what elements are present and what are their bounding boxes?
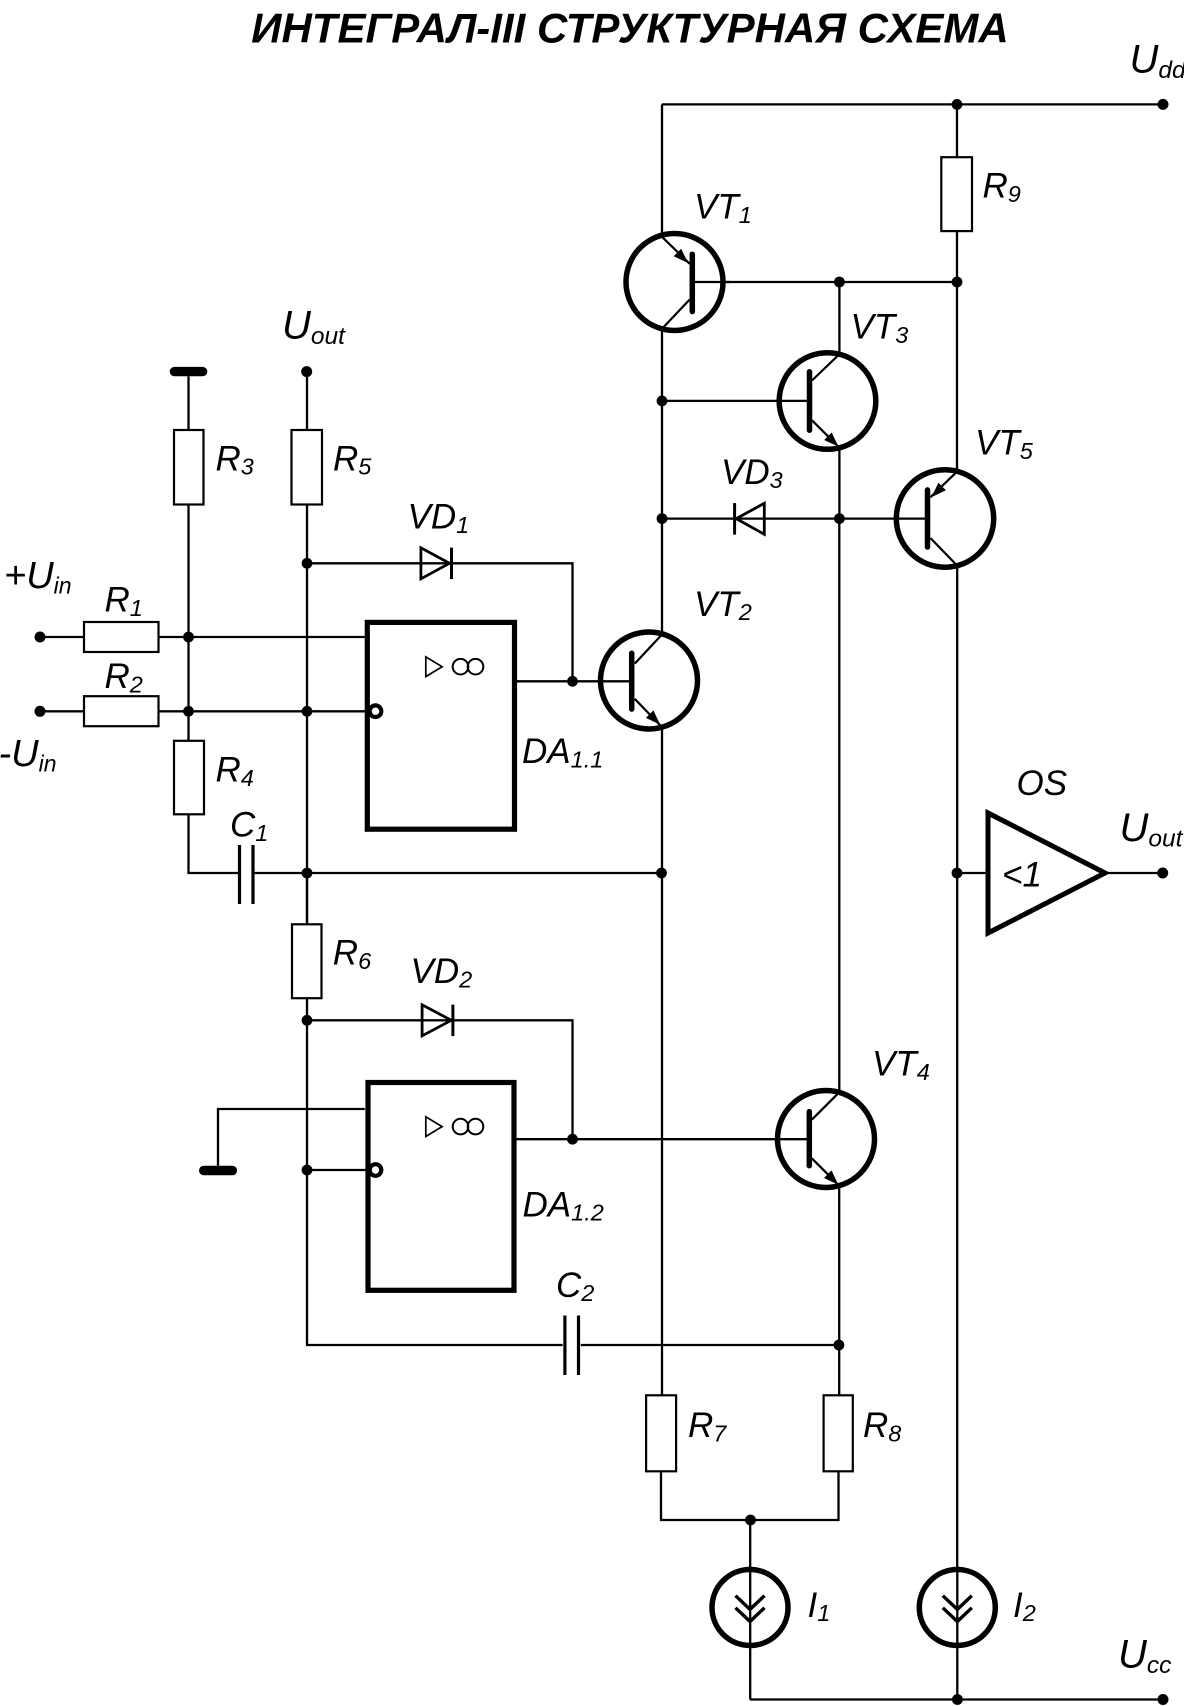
wire VT4 emitter down to R8: [838, 1186, 840, 1396]
buffer OS: [988, 813, 1105, 933]
current source I1: [712, 1520, 788, 1700]
diode VD2: [422, 1005, 453, 1037]
wire bottom Ucc rail: [750, 1698, 1163, 1700]
svg-text:Udd: Udd: [1130, 38, 1184, 85]
label DA1.1: [522, 732, 603, 772]
wire VD3 line: [662, 517, 925, 519]
label VT4: [872, 1045, 930, 1085]
svg-text:I2: I2: [1013, 1586, 1036, 1626]
wire C1 bus to x662: [255, 872, 662, 874]
label R4: [216, 751, 254, 791]
svg-text:R2: R2: [105, 657, 143, 697]
op-amp DA1.2: [368, 1083, 514, 1291]
label R3: [216, 439, 254, 479]
diode VD3: [735, 503, 765, 534]
wire R8 bottom to I1: [751, 1471, 839, 1520]
svg-text:DA1.2: DA1.2: [523, 1185, 604, 1225]
junction C1 bus / x307: [302, 868, 313, 879]
svg-text:R9: R9: [983, 167, 1021, 207]
transistor VT3: [776, 353, 876, 450]
label Uout top: [282, 304, 346, 351]
label Uout right: [1120, 806, 1184, 853]
junction VT3 base / left vertical: [657, 396, 668, 407]
label VD1: [408, 498, 470, 538]
wire R5 down x307 vertical to C2 corner: [307, 505, 563, 1346]
wire OS input: [957, 872, 985, 874]
wire VT5 verticals: [956, 566, 958, 873]
junction VD1 / x307: [302, 558, 313, 569]
label VT2: [694, 585, 752, 625]
label VD3: [721, 453, 783, 493]
wire R3 down through R1,R2 junctions to R4: [187, 505, 189, 741]
wire Uout to R5: [306, 377, 308, 430]
node Uout top terminal: [301, 366, 312, 377]
svg-text:VD2: VD2: [411, 952, 473, 992]
node -Uin terminal: [35, 706, 46, 717]
wire DA1.2 output to VT4 base: [517, 1138, 806, 1140]
label VT1: [694, 188, 752, 228]
diode VD1: [421, 548, 452, 580]
svg-text:R4: R4: [216, 751, 254, 791]
label R5: [333, 439, 372, 479]
junction VD2 / x307: [302, 1015, 313, 1026]
label DA1.2: [523, 1185, 604, 1225]
svg-text:VD3: VD3: [721, 453, 783, 493]
label R8: [863, 1406, 901, 1446]
wire VT2 emitter down to R7: [661, 727, 663, 1395]
label VT5: [975, 424, 1034, 464]
label Ucc: [1118, 1633, 1171, 1680]
junction VT1 base / VT3 collector: [834, 277, 845, 288]
label I1: [808, 1586, 831, 1626]
wire VT1 collector-emitter vertical upper: [661, 104, 663, 236]
svg-text:VT3: VT3: [851, 308, 909, 348]
svg-text:Ucc: Ucc: [1118, 1633, 1171, 1680]
svg-text:-Uin: -Uin: [0, 733, 57, 777]
svg-text:Uout: Uout: [1120, 806, 1184, 853]
svg-text:R3: R3: [216, 439, 254, 479]
wire C2 to VT4 emitter line: [581, 1344, 839, 1346]
wire DA1.1 output to VT2 base: [517, 680, 629, 682]
wire left vertical VT1 to VT2: [661, 329, 663, 635]
ground symbol upper (above R3): [174, 367, 202, 376]
wire R7 bottom to I1: [661, 1471, 751, 1520]
wire VD1 line with corner to output node: [307, 563, 573, 681]
svg-text:OS: OS: [1017, 764, 1068, 803]
resistor R9: [941, 157, 972, 231]
svg-text:+Uin: +Uin: [4, 555, 72, 599]
resistor R7: [646, 1395, 676, 1471]
node +Uin terminal: [35, 632, 46, 643]
svg-text:VT2: VT2: [694, 585, 752, 625]
label VD2: [411, 952, 473, 992]
svg-text:C2: C2: [556, 1266, 594, 1306]
svg-text:R8: R8: [863, 1406, 901, 1446]
junction VT1 base / right rail: [952, 277, 963, 288]
svg-text:R5: R5: [333, 439, 372, 479]
svg-text:C1: C1: [230, 806, 268, 846]
wire OS output: [1105, 872, 1158, 874]
junction DA1.2 -input / x307: [302, 1165, 313, 1176]
svg-text:ИНТЕГРАЛ-III СТРУКТУРНАЯ СХЕМА: ИНТЕГРАЛ-III СТРУКТУРНАЯ СХЕМА: [251, 5, 1008, 52]
capacitor C1: [240, 845, 254, 904]
wire R2 line: [40, 710, 368, 712]
node Udd terminal dot: [1158, 99, 1169, 110]
junction C1 bus / x662: [656, 868, 667, 879]
transistor VT5: [894, 470, 994, 567]
wire right rail lower to I2: [956, 873, 958, 1570]
node Udd label: [1130, 38, 1184, 85]
wire R1 line: [40, 636, 365, 638]
wire VT3 collector up: [838, 282, 840, 355]
wire DA1.2 +input to ground: [218, 1109, 365, 1166]
op-amp DA1.1: [367, 622, 514, 829]
svg-text:R1: R1: [105, 581, 143, 621]
junction R1 / R3 line: [183, 632, 194, 643]
label -Uin: [0, 733, 57, 777]
wire VT3 base: [662, 400, 807, 402]
title: [251, 5, 1008, 52]
junction R2 / R4 line: [183, 706, 194, 717]
wire ground to R3: [187, 376, 189, 430]
wire VT4 collector up: [838, 519, 840, 1093]
wire top Udd rail: [662, 103, 1163, 105]
transistor VT2: [598, 632, 698, 729]
wire DA1.2 -input: [307, 1169, 368, 1171]
label R2: [105, 657, 143, 697]
wire VT3 emitter down to VD3 line: [838, 448, 840, 519]
label C2: [556, 1266, 594, 1306]
svg-text:VT4: VT4: [872, 1045, 930, 1085]
junction DA1.1 output / VD1: [567, 676, 578, 687]
svg-text:R7: R7: [688, 1406, 727, 1446]
label R1: [105, 581, 143, 621]
wire right rail upper: [956, 104, 958, 471]
wire R4 bottom to C1: [189, 814, 239, 873]
wire R6 link (under resistor): [306, 873, 308, 924]
capacitor C2: [565, 1316, 579, 1376]
svg-text:I1: I1: [808, 1586, 831, 1626]
junction DA1.2 output / VD2: [567, 1134, 578, 1145]
label C1: [230, 806, 268, 846]
junction OS input / right rail: [952, 868, 963, 879]
label R9: [983, 167, 1021, 207]
svg-text:VT5: VT5: [975, 424, 1034, 464]
svg-text:VD1: VD1: [408, 498, 470, 538]
label R7: [688, 1406, 727, 1446]
resistor R8: [824, 1395, 853, 1471]
label VT3: [851, 308, 909, 348]
wire VD2 line with corner to DA1.2 output node: [307, 1020, 573, 1139]
svg-text:R6: R6: [333, 934, 372, 974]
resistor R6: [292, 924, 322, 998]
junction bottom rail / I2: [952, 1694, 963, 1705]
resistor R4: [174, 741, 204, 815]
transistor VT4: [775, 1091, 875, 1188]
svg-text:DA1.1: DA1.1: [522, 732, 603, 772]
resistor R3: [174, 430, 204, 505]
current source I2: [919, 1566, 995, 1700]
wire VT1 base line: [695, 281, 957, 283]
svg-text:Uout: Uout: [282, 304, 346, 351]
label +Uin: [4, 555, 72, 599]
label I2: [1013, 1586, 1036, 1626]
junction C2 / VT4 emitter: [834, 1340, 845, 1351]
junction top rail / R9 rail: [952, 99, 963, 110]
junction R7/R8 join: [745, 1515, 756, 1526]
svg-text:VT1: VT1: [694, 188, 752, 228]
ground symbol lower (DA1.2 +input): [204, 1166, 233, 1175]
label OS: [1017, 764, 1068, 803]
label R6: [333, 934, 372, 974]
junction R2 / x307 line: [302, 706, 313, 717]
junction VD3 / VT3-VT4 vertical: [834, 513, 845, 524]
transistor VT1: [626, 234, 730, 331]
resistor R5: [292, 430, 323, 505]
resistor R1: [84, 622, 159, 652]
junction VD3 / left vertical: [657, 513, 668, 524]
node Ucc terminal dot: [1158, 1694, 1169, 1705]
svg-text:<1: <1: [1002, 856, 1042, 895]
node Uout right terminal: [1157, 868, 1168, 879]
resistor R2: [84, 696, 159, 726]
